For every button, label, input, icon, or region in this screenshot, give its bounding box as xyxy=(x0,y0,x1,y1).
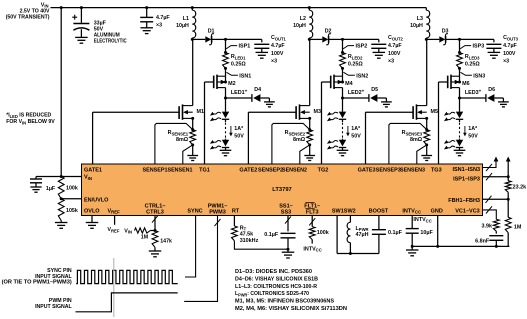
svg-text:RLED2​: RLED2​ xyxy=(348,54,363,60)
wire OVLO xyxy=(91,216,93,223)
ground LED string 3 xyxy=(454,149,466,151)
capacitor COUT3 xyxy=(486,43,501,45)
wire SENSEP1 xyxy=(155,123,193,164)
wire M2 source xyxy=(225,76,227,82)
resistor RLED3 xyxy=(457,53,463,69)
svg-text:CTRL1–: CTRL1– xyxy=(145,203,166,209)
wire SENSEP3 xyxy=(389,123,427,164)
resistor RSENSE1 xyxy=(190,130,196,145)
arrow ISN xyxy=(494,157,499,162)
wire SW2 top xyxy=(349,216,351,223)
wire M3 drain xyxy=(309,39,311,105)
svg-text:8mΩ: 8mΩ xyxy=(176,137,189,143)
node RLED3 bottom xyxy=(458,67,461,70)
ground LED string 2 xyxy=(337,149,349,151)
timing cursor xyxy=(113,258,115,317)
svg-text:8mΩ: 8mΩ xyxy=(293,137,306,143)
inductor L2 xyxy=(309,10,312,38)
svg-text:100V: 100V xyxy=(388,51,401,57)
diode D2 xyxy=(322,36,328,42)
svg-text:ISN2: ISN2 xyxy=(356,73,368,79)
node CTRL xyxy=(154,229,157,232)
ground D5 xyxy=(381,101,392,103)
svg-text:OVLO: OVLO xyxy=(84,208,100,214)
wire D4 to gnd xyxy=(260,97,269,99)
svg-text:10µH: 10µH xyxy=(410,23,423,29)
svg-text:50V: 50V xyxy=(351,134,361,140)
LED string 1 top xyxy=(225,98,227,112)
node LED2+ xyxy=(341,97,344,100)
svg-text:SS1–: SS1– xyxy=(279,203,292,209)
node M3 source xyxy=(308,117,311,120)
svg-text:TG3: TG3 xyxy=(431,168,442,174)
wire L2 to D2 xyxy=(309,38,322,40)
svg-text:FBH1–FBH3: FBH1–FBH3 xyxy=(448,198,480,204)
ground 147k xyxy=(149,250,162,252)
svg-text:M5: M5 xyxy=(431,109,439,115)
wire 3.9k-6.8nF xyxy=(495,231,497,233)
resistor RSENSE2 xyxy=(307,130,313,145)
svg-text:EN/UVLO: EN/UVLO xyxy=(84,197,109,203)
svg-text:FOR VIN​ BELOW 9V: FOR VIN​ BELOW 9V xyxy=(6,119,55,125)
svg-text:M4: M4 xyxy=(345,81,353,87)
wire FBH pins xyxy=(483,198,509,200)
svg-text:COUT2​: COUT2​ xyxy=(388,35,403,41)
LED string 3 top xyxy=(459,98,461,112)
node RSENSE1 top xyxy=(191,128,194,131)
svg-text:100V: 100V xyxy=(271,51,284,57)
svg-text:4.7µF: 4.7µF xyxy=(503,43,517,49)
wire M2 drain xyxy=(225,88,227,98)
wire SENSEN1 xyxy=(183,145,193,164)
svg-text:RSENSE1​: RSENSE1​ xyxy=(168,130,189,136)
svg-text:4.7µF: 4.7µF xyxy=(156,15,170,21)
node RLED2 top xyxy=(341,51,344,54)
wire SS pin xyxy=(287,216,289,232)
capacitor 6.8nF xyxy=(489,235,503,237)
wire D1 to node xyxy=(212,38,226,40)
node M5 source xyxy=(425,117,428,120)
svg-text:(50V TRANSIENT): (50V TRANSIENT) xyxy=(6,14,50,20)
svg-text:RLED1​: RLED1​ xyxy=(231,54,246,60)
wire VREF stub xyxy=(114,216,116,225)
svg-text:47µH: 47µH xyxy=(356,232,369,238)
capacitor COUT1 xyxy=(254,43,269,45)
svg-text:LPWR​: COILTRONICS SD25-470: LPWR​: COILTRONICS SD25-470 xyxy=(235,291,309,297)
svg-text:×3: ×3 xyxy=(388,58,394,64)
svg-text:FLT3: FLT3 xyxy=(306,209,319,215)
svg-text:L3: L3 xyxy=(417,16,423,22)
node L1/D1 xyxy=(191,38,194,41)
svg-text:100k: 100k xyxy=(317,230,329,236)
wire ISP pins xyxy=(483,176,509,178)
svg-text:GATE2: GATE2 xyxy=(239,168,257,174)
svg-text:147k: 147k xyxy=(160,239,172,245)
wire FLT pin xyxy=(311,216,313,227)
inductor L3 xyxy=(426,10,429,38)
svg-text:1M: 1M xyxy=(514,224,522,230)
wire 105k gnd xyxy=(60,221,62,223)
wire ISN pins xyxy=(483,162,497,168)
wire L3 to D3 xyxy=(426,38,439,40)
wire FLT intvcc xyxy=(311,240,313,244)
node RLED3 top xyxy=(458,51,461,54)
wire TG2 xyxy=(322,81,331,83)
svg-text:3.9k: 3.9k xyxy=(482,223,493,229)
svg-text:1A*: 1A* xyxy=(351,126,361,132)
svg-text:0.25Ω: 0.25Ω xyxy=(348,62,363,68)
wire SW1 xyxy=(336,216,338,254)
svg-text:SS3: SS3 xyxy=(281,209,291,215)
wire SS gnd xyxy=(287,238,289,249)
svg-text:INPUT SIGNAL: INPUT SIGNAL xyxy=(35,304,72,310)
resistor R-UVLO-top 100k xyxy=(58,177,64,199)
svg-text:VIN​: VIN​ xyxy=(84,175,92,181)
node LED3+ xyxy=(458,97,461,100)
wire VIN vertical xyxy=(60,8,62,177)
resistor RSENSE3 xyxy=(424,130,430,145)
svg-text:ISN1–ISN3: ISN1–ISN3 xyxy=(452,167,480,173)
wire PWM xyxy=(184,216,217,302)
wire SENSEN3 xyxy=(417,145,427,164)
svg-text:100V: 100V xyxy=(503,51,516,57)
node RSENSE3 top xyxy=(425,128,428,131)
wire TG3 xyxy=(439,81,448,83)
capacitor COUT2 xyxy=(371,43,386,45)
wire CTRL pin xyxy=(154,216,156,231)
diode D3 xyxy=(439,36,445,42)
svg-text:D1–D3: DIODES INC. PDS360: D1–D3: DIODES INC. PDS360 xyxy=(235,269,312,275)
svg-text:ISP1–ISP3: ISP1–ISP3 xyxy=(453,177,480,183)
wire SYNC xyxy=(185,216,196,278)
wire gnd rail xyxy=(412,245,509,247)
capacitor C-INTVCC 10uF xyxy=(406,228,419,230)
wire RSENSE3 gnd xyxy=(426,145,428,156)
ground OVLO xyxy=(86,222,99,224)
node ISP1 xyxy=(224,38,227,41)
node RSENSE2 bottom xyxy=(308,143,311,146)
wire ISN1 stub xyxy=(225,68,227,76)
svg-text:COUT1​: COUT1​ xyxy=(271,35,286,41)
capacitor C-BOOST 0.1uF xyxy=(372,229,386,231)
wire INTVCC pin xyxy=(411,216,413,229)
wire BOOST gnd xyxy=(378,234,380,253)
resistor R-FLT 100k xyxy=(309,227,315,240)
svg-text:PWM3: PWM3 xyxy=(209,209,226,215)
ground 105k xyxy=(55,222,67,224)
diode D6 xyxy=(485,94,487,102)
svg-text:SW1SW2: SW1SW2 xyxy=(332,208,356,214)
node RSENSE2 top xyxy=(308,128,311,131)
ground RSENSE3 xyxy=(421,155,432,157)
svg-text:TG1: TG1 xyxy=(199,168,210,174)
label LED current 3 xyxy=(464,126,466,134)
wire M1 drain xyxy=(192,39,194,105)
wire SW rail xyxy=(337,253,379,255)
ground RSENSE2 xyxy=(304,155,315,157)
wire TG1 xyxy=(205,81,214,83)
wire LED3+ to D6 xyxy=(460,97,486,99)
svg-text:D2: D2 xyxy=(325,28,332,34)
wire D6 to gnd xyxy=(494,97,503,99)
svg-text:RLED3​: RLED3​ xyxy=(465,54,480,60)
wire INTVCC gnd xyxy=(411,233,413,246)
svg-text:VIN​: VIN​ xyxy=(124,228,132,234)
ground INTVCC xyxy=(406,249,419,251)
svg-text:23.2k: 23.2k xyxy=(513,185,527,191)
ground RSENSE1 xyxy=(187,155,198,157)
transistor M4 xyxy=(330,76,332,89)
wire D2 to node xyxy=(329,38,343,40)
wire LED dashed 2 xyxy=(342,120,344,123)
wire BOOST xyxy=(378,216,380,230)
svg-text:100k: 100k xyxy=(66,186,78,192)
svg-text:SENSEP1: SENSEP1 xyxy=(143,168,168,174)
wire LED2+ to D5 xyxy=(343,97,369,99)
wire M6 drain xyxy=(459,88,461,98)
svg-text:GATE3: GATE3 xyxy=(358,168,376,174)
svg-text:105k: 105k xyxy=(66,208,78,214)
ground LED string 1 xyxy=(220,149,232,151)
diode D1 xyxy=(205,36,211,42)
svg-text:6.8nF: 6.8nF xyxy=(475,238,490,244)
ground D4 xyxy=(264,101,275,103)
svg-text:310kHz: 310kHz xyxy=(240,238,259,244)
transistor M2 xyxy=(213,76,215,89)
wire 6.8nF gnd xyxy=(495,240,497,246)
svg-text:D3: D3 xyxy=(442,28,449,34)
svg-text:×3: ×3 xyxy=(271,58,277,64)
LED string 2 top xyxy=(342,98,344,112)
wire VC pins xyxy=(483,210,497,219)
wire SENSEN2 xyxy=(300,145,310,164)
label LED current 2 xyxy=(347,126,349,134)
wire node to COUT1 xyxy=(226,38,262,40)
wire D5 to gnd xyxy=(377,97,386,99)
node LED1+ xyxy=(224,97,227,100)
svg-text:RSENSE3​: RSENSE3​ xyxy=(402,130,423,136)
svg-text:50V: 50V xyxy=(234,134,244,140)
svg-text:SENSEN3: SENSEN3 xyxy=(400,168,425,174)
ground SS xyxy=(282,251,295,253)
node L2/D2 xyxy=(308,38,311,41)
svg-text:INTVCC​: INTVCC​ xyxy=(413,217,431,223)
waveform PWM step xyxy=(76,293,178,312)
ground D6 xyxy=(498,101,509,103)
svg-text:8mΩ: 8mΩ xyxy=(410,137,423,143)
svg-text:0.25Ω: 0.25Ω xyxy=(231,62,246,68)
svg-text:M3: M3 xyxy=(314,109,322,115)
node M1 source xyxy=(191,117,194,120)
svg-text:VREF​: VREF​ xyxy=(107,227,119,233)
svg-text:1µF: 1µF xyxy=(46,186,56,192)
resistor 1M fb xyxy=(507,199,509,217)
wire M4 drain xyxy=(342,88,344,98)
svg-text:0.1µF: 0.1µF xyxy=(388,230,403,236)
svg-text:10µH: 10µH xyxy=(293,23,306,29)
svg-text:BOOST: BOOST xyxy=(369,208,389,214)
wire RT xyxy=(233,216,235,227)
wire M5 drain xyxy=(426,39,428,105)
svg-text:*ILED​ IS REDUCED: *ILED​ IS REDUCED xyxy=(6,113,51,119)
svg-text:D5: D5 xyxy=(371,87,378,93)
resistor 3.9k xyxy=(493,219,499,231)
svg-text:SENSEN1: SENSEN1 xyxy=(168,168,193,174)
svg-text:SENSEN2: SENSEN2 xyxy=(282,168,307,174)
svg-text:L1–L3: COILTRONICS HC9-100-R: L1–L3: COILTRONICS HC9-100-R xyxy=(235,284,317,290)
resistor RT 47.5k xyxy=(232,226,238,241)
wire SW2 bottom xyxy=(349,243,351,254)
wire 1uF xyxy=(36,176,61,178)
wire ISP1 stub xyxy=(225,39,227,52)
svg-text:M6: M6 xyxy=(462,81,470,87)
inductor L1 xyxy=(192,10,195,38)
svg-text:0.1µF: 0.1µF xyxy=(264,232,279,238)
node L3/D3 xyxy=(425,38,428,41)
svg-text:VREF​: VREF​ xyxy=(108,208,121,214)
svg-text:1M: 1M xyxy=(141,235,149,241)
svg-text:ISP3: ISP3 xyxy=(473,44,485,50)
svg-text:INTVCC​: INTVCC​ xyxy=(303,246,321,252)
node RSENSE1 bottom xyxy=(191,143,194,146)
transistor M1 xyxy=(178,106,180,119)
transistor M3 xyxy=(295,106,297,119)
svg-text:(OR TIE TO PWM1–PWM3): (OR TIE TO PWM1–PWM3) xyxy=(2,280,72,286)
wire GATE1 xyxy=(93,111,180,113)
svg-text:4.7µF: 4.7µF xyxy=(271,43,285,49)
node RLED1 bottom xyxy=(224,67,227,70)
svg-text:D4–D6: VISHAY SILICONIX ES1B: D4–D6: VISHAY SILICONIX ES1B xyxy=(235,277,318,283)
svg-text:ISP2: ISP2 xyxy=(356,44,368,50)
node VIN pin xyxy=(60,175,63,178)
wire ISP3 stub xyxy=(459,39,461,52)
wire ISN3 stub xyxy=(459,68,461,76)
transistor M6 xyxy=(447,76,449,89)
svg-text:SENSEP3: SENSEP3 xyxy=(376,168,401,174)
LED string 3 bottom xyxy=(459,139,461,140)
svg-text:M1, M3, M5: INFINEON BSC039N06: M1, M3, M5: INFINEON BSC039N06NS xyxy=(235,298,334,304)
svg-text:×3: ×3 xyxy=(503,58,509,64)
LED string 2 bottom xyxy=(342,139,344,140)
arrow ISP xyxy=(507,162,509,177)
resistor R-CTRL 1M xyxy=(135,228,151,233)
svg-text:PWM1–: PWM1– xyxy=(208,203,228,209)
wire D3 to node xyxy=(446,38,460,40)
capacitor C-IN1 33uF xyxy=(80,8,82,23)
svg-text:M1: M1 xyxy=(197,109,205,115)
wire RSENSE1 gnd xyxy=(192,145,194,156)
ground COUT3 xyxy=(488,51,501,53)
wire ISP2 stub xyxy=(342,39,344,52)
LED string 1 bottom xyxy=(225,139,227,140)
svg-text:10µF: 10µF xyxy=(420,230,433,236)
svg-text:LT3797: LT3797 xyxy=(272,187,292,193)
svg-text:D1: D1 xyxy=(208,28,215,34)
svg-text:M2, M4, M6: VISHAY SILICONIX S: M2, M4, M6: VISHAY SILICONIX Si7113DN xyxy=(235,306,347,312)
label LED current 1 xyxy=(230,126,232,134)
svg-text:ISP1: ISP1 xyxy=(239,44,251,50)
node EN/UVLO xyxy=(60,197,63,200)
svg-text:1A*: 1A* xyxy=(234,126,244,132)
IC U1 LT3797 body xyxy=(82,164,483,216)
wire M6 source xyxy=(459,76,461,82)
wire GATE3 xyxy=(366,111,414,113)
svg-text:GND: GND xyxy=(431,208,443,214)
capacitor C-SS 0.1uF xyxy=(281,232,296,234)
svg-text:D6: D6 xyxy=(488,87,495,93)
wire LED dashed 1 xyxy=(225,120,227,123)
capacitor C-IN2 4.7uF xyxy=(146,8,148,18)
wire ISN2 stub xyxy=(342,68,344,76)
transistor M5 xyxy=(412,106,414,119)
svg-text:INTVCC​: INTVCC​ xyxy=(402,208,421,214)
ground COUT1 xyxy=(256,51,268,53)
svg-text:VC1–VC3: VC1–VC3 xyxy=(455,208,479,214)
resistor R-CTRL 147k xyxy=(152,231,158,248)
ground 33uF xyxy=(75,36,88,38)
svg-text:ELECTROLYTIC: ELECTROLYTIC xyxy=(94,38,127,44)
wire L1 to D1 xyxy=(192,38,205,40)
svg-text:RSENSE2​: RSENSE2​ xyxy=(285,130,306,136)
resistor RLED1 xyxy=(223,53,229,69)
svg-text:M2: M2 xyxy=(228,81,236,87)
svg-text:10µH: 10µH xyxy=(176,23,189,29)
wire 147k gnd xyxy=(154,247,156,251)
ground C-IN2 xyxy=(140,27,153,29)
svg-text:0.25Ω: 0.25Ω xyxy=(465,62,480,68)
wire LED1+ to D4 xyxy=(226,97,252,99)
resistor 23.2k xyxy=(507,177,509,181)
svg-text:47.5k: 47.5k xyxy=(240,232,254,238)
svg-text:RT: RT xyxy=(232,208,240,214)
node ISP2 xyxy=(341,38,344,41)
node RLED2 bottom xyxy=(341,67,344,70)
wire M4 source xyxy=(342,76,344,82)
svg-text:TG2: TG2 xyxy=(318,168,329,174)
wire node to COUT3 xyxy=(460,38,494,40)
wire GND pin xyxy=(437,216,439,247)
diode D4 xyxy=(251,94,253,102)
svg-text:1A*: 1A* xyxy=(468,126,478,132)
svg-text:COUT3​: COUT3​ xyxy=(503,35,518,41)
svg-text:×3: ×3 xyxy=(156,23,162,29)
svg-text:CTRL3: CTRL3 xyxy=(146,209,164,215)
svg-text:ISN1: ISN1 xyxy=(239,73,251,79)
inductor LPWR xyxy=(347,222,350,242)
capacitor C-VIN 1uF xyxy=(30,178,42,180)
svg-text:SENSEP2: SENSEP2 xyxy=(258,168,283,174)
node RLED1 top xyxy=(224,51,227,54)
node VIN rail taps xyxy=(60,6,63,9)
svg-text:L2: L2 xyxy=(300,16,306,22)
svg-text:D4: D4 xyxy=(254,87,261,93)
svg-text:ISN3: ISN3 xyxy=(473,73,485,79)
node ISP3 xyxy=(458,38,461,41)
waveform SYNC square wave xyxy=(76,270,178,283)
wire RSENSE2 gnd xyxy=(309,145,311,156)
wire LED dashed 3 xyxy=(459,120,461,123)
svg-text:GATE1: GATE1 xyxy=(84,168,102,174)
diode D5 xyxy=(368,94,370,102)
resistor RLED2 xyxy=(340,53,346,69)
ground COUT2 xyxy=(373,51,386,53)
ground 1uF xyxy=(30,186,41,188)
svg-text:SYNC: SYNC xyxy=(187,208,202,214)
svg-text:4.7µF: 4.7µF xyxy=(388,43,402,49)
resistor R-UVLO-bot 105k xyxy=(58,199,64,221)
svg-text:L1: L1 xyxy=(183,16,189,22)
wire node to COUT2 xyxy=(343,38,379,40)
